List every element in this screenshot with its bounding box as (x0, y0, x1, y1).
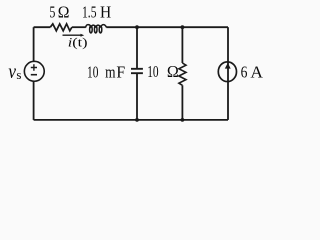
capacitor branch wire upper (136, 27, 138, 68)
svg-text:A: A (250, 63, 263, 82)
svg-text:F: F (116, 62, 125, 81)
svg-text:Ω: Ω (58, 3, 70, 22)
svg-text:H: H (100, 3, 111, 22)
voltage source Vs circle (24, 61, 44, 81)
svg-text:i(t): i(t) (68, 36, 88, 50)
inductor L1 loop 2 (94, 26, 97, 33)
svg-text:10: 10 (87, 62, 98, 81)
wire top right segment (106, 26, 228, 28)
current source circle (218, 62, 236, 82)
svg-text:6: 6 (241, 63, 248, 82)
capacitor C1 plates (131, 69, 143, 73)
wire between R1 and L1 (72, 26, 86, 28)
svg-text:5: 5 (49, 3, 55, 22)
resistor R1 5-ohm horizontal zigzag (50, 24, 72, 31)
resistor branch wire upper (181, 27, 183, 63)
resistor branch wire lower (181, 85, 183, 120)
node dot bottom capacitor (135, 118, 139, 122)
plus sign (31, 64, 37, 70)
current arrow over i(t) (63, 34, 82, 36)
node dot top capacitor (135, 25, 139, 29)
svg-text:m: m (105, 62, 115, 81)
wire left vertical lower (33, 81, 35, 120)
minus sign (31, 74, 37, 76)
resistor R2 10-ohm vertical zigzag (179, 63, 186, 85)
current source arrowhead (225, 63, 231, 69)
inductor L1 1.5H hump arcs (86, 25, 107, 28)
current arrow head (81, 34, 85, 37)
wire top left segment (34, 26, 51, 28)
node dot bottom resistor (181, 118, 185, 122)
wire left vertical upper (33, 27, 35, 61)
svg-text:v: v (8, 62, 16, 83)
node dot top resistor (181, 25, 185, 29)
wire right vertical through current source (227, 27, 229, 120)
wire bottom (34, 119, 228, 121)
svg-text:10: 10 (147, 62, 158, 81)
svg-text:s: s (16, 67, 21, 82)
capacitor branch wire lower (136, 74, 138, 120)
svg-text:Ω: Ω (167, 62, 179, 81)
inductor L1 loop 1 (90, 26, 93, 33)
svg-text:1.5: 1.5 (82, 3, 97, 22)
inductor L1 loop 3 (99, 26, 102, 33)
